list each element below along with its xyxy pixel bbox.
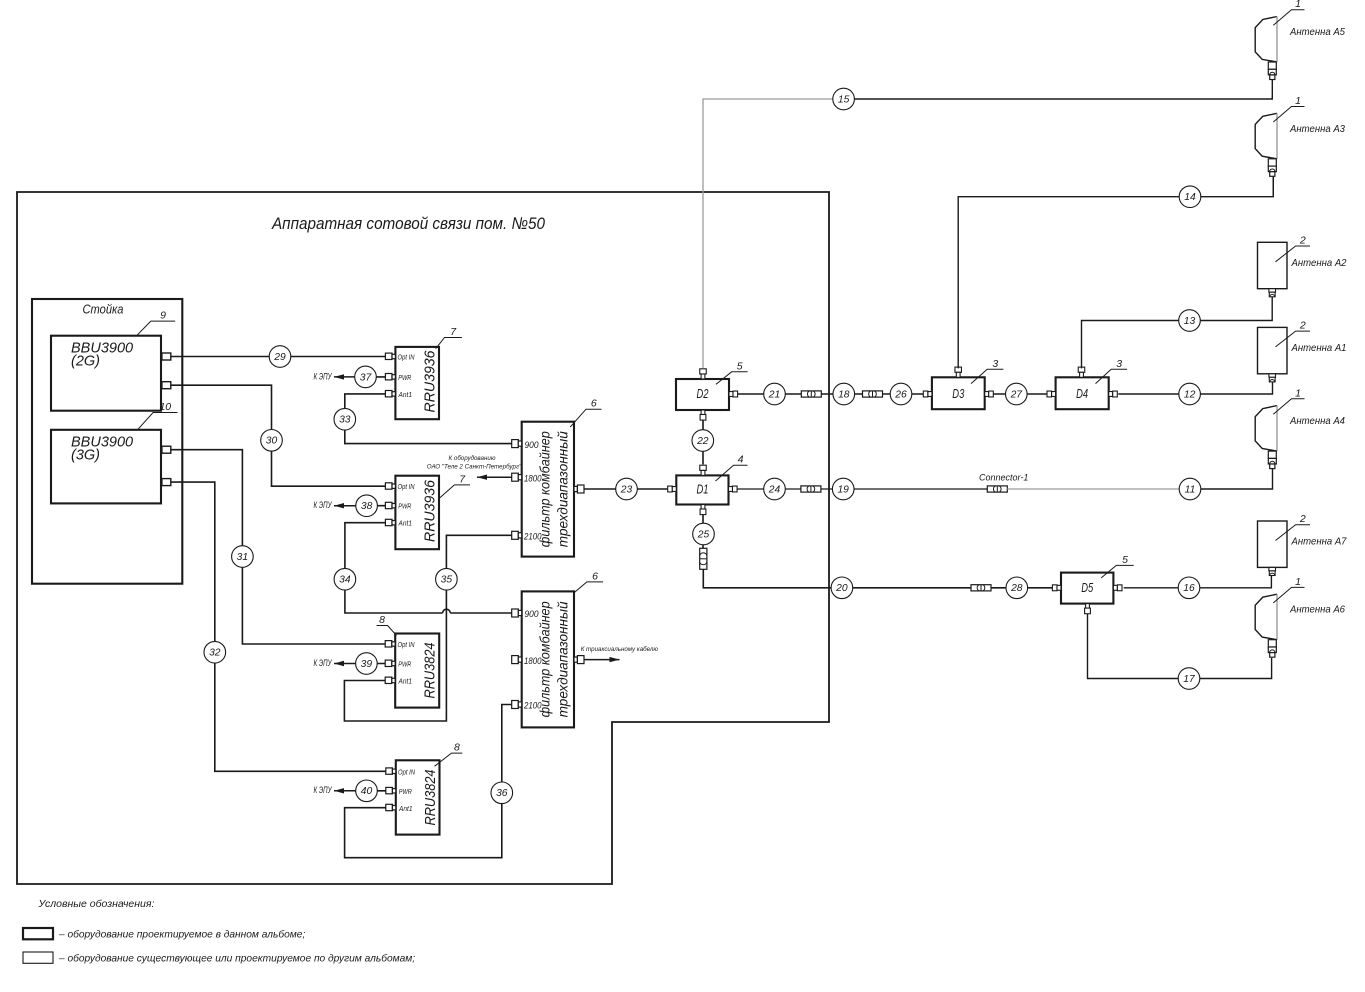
node 19 (832, 478, 854, 500)
svg-text:20: 20 (835, 583, 848, 594)
svg-text:8: 8 (454, 742, 460, 754)
svg-text:2: 2 (1299, 320, 1306, 332)
svg-text:Ant1: Ant1 (398, 519, 412, 528)
wire 20 connector to D5 (via node 28) (703, 569, 971, 588)
arrow to Теле 2 equipment (477, 475, 512, 480)
node 22 (692, 430, 714, 452)
svg-text:Антенна А5: Антенна А5 (1289, 26, 1345, 38)
leader 2 antenna A1 (1276, 320, 1311, 347)
svg-text:26: 26 (894, 389, 907, 400)
svg-text:2100: 2100 (523, 701, 541, 711)
wire D2 to connector (via node 21) (738, 393, 802, 395)
D4 right port (1109, 391, 1118, 397)
svg-text:1: 1 (1295, 576, 1301, 588)
combiner unit 6 (lower) фильтр комбайнер box (522, 591, 574, 727)
node 34 (334, 568, 356, 590)
D1 left port (668, 486, 677, 492)
node 12 (1179, 383, 1201, 405)
svg-text:Антенна А7: Антенна А7 (1291, 536, 1348, 548)
D2 top port (700, 369, 707, 379)
wire connector to connector (via node 18) (821, 393, 862, 395)
node 18 (833, 383, 855, 405)
svg-text:D4: D4 (1076, 387, 1088, 401)
wire 11 to antenna A4 (1201, 469, 1273, 489)
D3 left port (923, 391, 932, 397)
svg-text:9: 9 (160, 310, 166, 322)
svg-text:2100: 2100 (523, 532, 541, 542)
RRU3936-1 PWR port (385, 374, 395, 380)
svg-text:3: 3 (1116, 358, 1122, 370)
node 29 (269, 346, 291, 368)
svg-text:трехдиапазонный: трехдиапазонный (555, 431, 571, 547)
BBU 3G port 2 (162, 479, 171, 486)
RRU3936-2 Opt IN port (385, 483, 395, 489)
node 25 (693, 523, 715, 545)
inline connector on D1 bottom feed (700, 548, 707, 569)
svg-text:23: 23 (620, 484, 633, 495)
svg-text:6: 6 (592, 570, 598, 582)
wire 27 D3 to D4 (993, 393, 1047, 395)
wire PWR to К ЭПУ node 39 (355, 663, 385, 665)
BBU 3G port 1 (162, 446, 171, 453)
arrow К ЭПУ 37 (334, 374, 355, 379)
svg-text:– оборудование существующее ил: – оборудование существующее или проектир… (58, 953, 415, 965)
D4 top port (1078, 367, 1085, 377)
wire 35 Ant1 to combiner-1 2100 (344, 535, 511, 721)
D3 right port (985, 391, 994, 397)
svg-text:(3G): (3G) (71, 448, 100, 464)
svg-text:21: 21 (768, 389, 780, 400)
D5 left port (1052, 585, 1061, 591)
svg-text:22: 22 (696, 436, 709, 447)
wire 24 D1 right to Connector-1 (737, 488, 987, 490)
node 39 (356, 653, 378, 675)
arrow К триаксиальному кабелю (584, 657, 620, 662)
svg-text:11: 11 (1185, 484, 1196, 495)
svg-text:RRU3824: RRU3824 (423, 770, 439, 826)
leader 5 D2 (716, 360, 748, 384)
Connector-1 inline connector (987, 486, 1007, 492)
rack Стойка (32, 299, 182, 584)
svg-text:18: 18 (838, 389, 850, 400)
svg-text:Ant1: Ant1 (398, 804, 412, 813)
leader 9 BBU3900 (2G) (137, 310, 176, 336)
legend symbol existing equipment (23, 952, 53, 963)
svg-text:36: 36 (496, 788, 508, 799)
leader 3 D3 (971, 358, 1003, 384)
node 28 (1006, 577, 1028, 599)
node 36 (491, 782, 513, 804)
leader 10 BBU3900 (3G) (138, 401, 178, 430)
svg-text:Ant1: Ant1 (398, 390, 412, 399)
RRU3824-2 Ant1 port (386, 804, 396, 810)
node 31 (232, 546, 254, 568)
node 15 (833, 88, 855, 110)
svg-text:1800: 1800 (524, 656, 542, 666)
combiner unit 6 (upper) фильтр комбайнер box (522, 422, 574, 557)
RRU3936 unit 7 (lower) box (395, 476, 439, 550)
wire connector to D5 left port (991, 587, 1052, 589)
combiner-1 2100 port (512, 531, 522, 539)
RRU3936-1 Opt IN port (385, 353, 395, 359)
svg-text:– оборудование проектируемое в: – оборудование проектируемое в данном ал… (58, 929, 305, 941)
wire antenna A5 stem (1271, 80, 1273, 99)
leader 6 combiner-2 (575, 570, 604, 592)
svg-text:ОАО "Теле 2 Санкт-Петербург": ОАО "Теле 2 Санкт-Петербург" (427, 464, 522, 471)
wire 17 D5 bottom to antenna A6 (1088, 614, 1272, 679)
svg-text:Антенна А1: Антенна А1 (1291, 342, 1347, 354)
wire D2 top to node 15 (gray, existing) (703, 99, 833, 368)
wire node 15 to antenna A5 (854, 97, 1272, 99)
svg-text:Opt IN: Opt IN (398, 768, 416, 777)
combiner-1 900 port (512, 440, 522, 448)
node 40 (356, 780, 378, 802)
svg-text:19: 19 (837, 484, 849, 495)
svg-text:RRU3936: RRU3936 (423, 350, 439, 413)
combiner-2 1800 port (512, 656, 522, 664)
node 13 (1179, 310, 1201, 332)
svg-text:5: 5 (1122, 554, 1128, 566)
svg-text:2: 2 (1299, 235, 1306, 247)
wire 14 D3 top to antenna A3 (958, 177, 1273, 368)
wire D1 bottom to inline connector (via node 25) (702, 515, 704, 549)
svg-text:1: 1 (1295, 387, 1301, 399)
svg-text:Антенна А6: Антенна А6 (1289, 604, 1345, 616)
RRU3824-1 Opt IN port (385, 641, 395, 647)
svg-text:25: 25 (697, 529, 710, 540)
svg-text:К ЭПУ: К ЭПУ (314, 500, 333, 510)
svg-text:D3: D3 (952, 387, 964, 401)
antenna A7 symbol (1258, 521, 1288, 576)
svg-text:37: 37 (360, 372, 373, 383)
arrow К ЭПУ 39 (334, 661, 355, 666)
svg-text:10: 10 (159, 401, 171, 413)
svg-text:3: 3 (992, 358, 998, 370)
svg-text:(2G): (2G) (71, 354, 100, 370)
leader 6 combiner-1 (570, 398, 601, 427)
arrow К ЭПУ 40 (334, 788, 355, 793)
wire PWR to К ЭПУ node 37 (355, 376, 385, 378)
node 26 (890, 383, 912, 405)
svg-text:D2: D2 (697, 387, 709, 401)
svg-text:14: 14 (1184, 192, 1196, 203)
room outline Аппаратная сотовой связи (17, 192, 829, 884)
svg-text:33: 33 (339, 415, 351, 426)
BBU3900 (2G) box (51, 336, 161, 411)
wire 30 BBU2G to RRU3936-2 Opt IN (171, 385, 386, 486)
svg-text:1: 1 (1295, 0, 1301, 10)
svg-text:Антенна А4: Антенна А4 (1289, 415, 1345, 427)
svg-text:34: 34 (339, 575, 351, 586)
svg-text:Opt IN: Opt IN (398, 640, 416, 649)
node 16 (1178, 577, 1200, 599)
leader 7 RRU3936-1 (436, 326, 462, 349)
node 32 (204, 641, 226, 663)
node 11 (1179, 478, 1201, 500)
svg-text:2: 2 (1299, 513, 1306, 525)
svg-text:Opt IN: Opt IN (398, 482, 416, 491)
inline connector D2-D3 b (863, 391, 883, 397)
svg-text:PWR: PWR (398, 660, 411, 669)
svg-text:1: 1 (1295, 95, 1301, 107)
wire 22 D2 to D1 (702, 420, 704, 465)
D5 bottom port (1085, 604, 1091, 614)
svg-text:35: 35 (441, 575, 453, 586)
svg-text:PWR: PWR (398, 373, 411, 382)
antenna A6 symbol (1255, 594, 1277, 657)
svg-text:К триаксиальному кабелю: К триаксиальному кабелю (581, 646, 659, 653)
svg-text:фильтр комбайнер: фильтр комбайнер (537, 431, 553, 547)
wire 32 BBU3G to RRU3824-2 Opt IN (171, 482, 386, 771)
svg-text:4: 4 (738, 454, 744, 466)
leader 2 antenna A7 (1276, 513, 1311, 540)
BBU 2G port 2 (162, 382, 171, 389)
arrow К ЭПУ 38 (334, 503, 355, 508)
leader 3 D4 (1096, 358, 1128, 384)
inline connector on wire 20 (971, 585, 991, 591)
node 33 (334, 408, 356, 430)
wire 36 Ant1 to combiner-2 2100 (345, 705, 512, 858)
svg-text:трехдиапазонный: трехдиапазонный (555, 601, 571, 717)
node 14 (1179, 186, 1201, 208)
wire 23 combiner-1 to D1 (584, 488, 668, 490)
svg-text:Connector-1: Connector-1 (979, 473, 1028, 483)
svg-text:Стойка: Стойка (83, 303, 124, 317)
svg-text:30: 30 (266, 436, 278, 447)
svg-text:17: 17 (1183, 674, 1196, 685)
svg-text:16: 16 (1183, 583, 1195, 594)
svg-text:13: 13 (1184, 316, 1196, 327)
RRU3936-1 Ant1 port (385, 391, 395, 397)
node 21 (764, 383, 786, 405)
node 35 (436, 568, 458, 590)
leader 2 antenna A2 (1276, 235, 1311, 262)
RRU3824-2 PWR port (386, 787, 396, 793)
svg-text:Антенна А2: Антенна А2 (1291, 257, 1347, 269)
leader 4 D1 (716, 454, 748, 481)
combiner-2 output port (574, 656, 584, 664)
svg-text:PWR: PWR (399, 787, 412, 796)
svg-text:24: 24 (768, 484, 781, 495)
RRU3824-2 Opt IN port (386, 768, 396, 774)
svg-text:RRU3824: RRU3824 (423, 643, 439, 699)
svg-text:12: 12 (1184, 389, 1196, 400)
antenna A5 symbol (1255, 17, 1277, 80)
combiner-2 2100 port (512, 701, 522, 709)
svg-text:К ЭПУ: К ЭПУ (314, 785, 333, 795)
svg-text:К ЭПУ: К ЭПУ (314, 658, 333, 668)
node 27 (1006, 383, 1028, 405)
node 30 (261, 430, 283, 452)
D1 top port (700, 465, 707, 475)
inline connector D1 row (801, 486, 821, 492)
wire 29 BBU2G to RRU3936-1 Opt IN (171, 356, 386, 358)
divider D1 box (676, 475, 728, 504)
D2 right port (729, 391, 738, 397)
BBU3900 (3G) box (51, 430, 161, 504)
D1 right port (729, 486, 738, 492)
svg-text:Opt IN: Opt IN (398, 352, 416, 361)
svg-text:Антенна А3: Антенна А3 (1289, 123, 1345, 135)
wire 12 D4 to antenna A1 (1118, 381, 1272, 394)
D4 left port (1047, 391, 1056, 397)
node 23 (616, 478, 638, 500)
D1 bottom port (700, 505, 706, 515)
svg-text:6: 6 (591, 398, 597, 410)
svg-text:1800: 1800 (524, 473, 542, 483)
combiner-1 1800 port (512, 473, 522, 481)
RRU3936-2 PWR port (385, 502, 395, 508)
wire PWR to К ЭПУ node 40 (355, 790, 386, 792)
wire Connector-1 to node 11 (gray, existing) (1007, 488, 1179, 490)
leader 8 RRU3824-1 (377, 614, 397, 636)
svg-text:Аппаратная сотовой связи пом.: Аппаратная сотовой связи пом. №50 (271, 214, 545, 233)
svg-text:К ЭПУ: К ЭПУ (314, 371, 333, 381)
svg-text:27: 27 (1010, 389, 1024, 400)
node 37 (355, 366, 377, 388)
divider D2 box (676, 379, 729, 410)
node 24 (764, 478, 786, 500)
svg-text:Ant1: Ant1 (398, 677, 412, 686)
wire 31 BBU3G to RRU3824-1 Opt IN (171, 450, 385, 644)
svg-text:5: 5 (737, 360, 743, 372)
RRU3824-1 Ant1 port (385, 677, 395, 683)
svg-text:900: 900 (525, 440, 539, 450)
divider D4 box (1056, 377, 1109, 409)
antenna A2 symbol (1258, 242, 1288, 297)
svg-text:PWR: PWR (398, 502, 411, 511)
RRU3824-1 PWR port (385, 660, 395, 666)
leader 1 antenna A4 (1273, 387, 1304, 414)
svg-text:38: 38 (361, 501, 373, 512)
svg-text:D1: D1 (697, 482, 709, 496)
RRU3936-2 Ant1 port (385, 519, 395, 525)
combiner-1 output port (574, 485, 584, 493)
leader 8 RRU3824-2 (435, 742, 463, 767)
svg-text:29: 29 (273, 352, 286, 363)
D5 right port (1113, 585, 1122, 591)
combiner-2 900 port (512, 609, 522, 617)
divider D3 box (932, 377, 985, 409)
D3 top port (955, 367, 962, 377)
leader 5 D5 (1101, 554, 1134, 578)
svg-text:31: 31 (237, 552, 248, 563)
RRU3824 unit 8 (lower) box (396, 760, 440, 834)
RRU3824 unit 8 (upper) box (395, 634, 439, 708)
svg-text:D5: D5 (1081, 581, 1093, 595)
RRU3936 unit 7 (upper) box (395, 347, 439, 419)
antenna A1 symbol (1258, 327, 1288, 382)
legend symbol new equipment (23, 928, 53, 939)
wire antenna A3 stem (1272, 176, 1274, 196)
leader 1 antenna A6 (1273, 576, 1304, 603)
BBU 2G port 1 (162, 353, 171, 360)
leader 1 antenna A5 (1273, 0, 1304, 25)
node 17 (1178, 668, 1200, 690)
antenna A4 symbol (1255, 406, 1277, 469)
svg-text:Условные обозначения:: Условные обозначения: (38, 898, 155, 910)
divider D5 box (1061, 573, 1113, 604)
svg-text:RRU3936: RRU3936 (423, 479, 439, 542)
wire 13 D4 top to antenna A2 (1082, 297, 1273, 368)
inline connector D2-D3 a (801, 391, 821, 397)
svg-text:32: 32 (209, 648, 221, 659)
node 20 (831, 577, 853, 599)
D2 bottom port (700, 410, 706, 420)
leader 7 RRU3936-2 (438, 473, 470, 499)
svg-text:К оборудованию: К оборудованию (449, 455, 496, 462)
wire 34 Ant1 to combiner-2 900 (with hop) (345, 523, 443, 613)
svg-text:8: 8 (379, 614, 385, 626)
wire connector to D3 (via node 26) (883, 393, 924, 395)
node 38 (356, 495, 378, 517)
wire PWR to К ЭПУ node 38 (355, 505, 385, 507)
wire 16 D5 right to antenna A7 (1124, 576, 1272, 588)
svg-text:28: 28 (1010, 583, 1023, 594)
svg-text:15: 15 (838, 94, 850, 105)
leader 1 antenna A3 (1273, 95, 1304, 122)
svg-text:39: 39 (361, 659, 373, 670)
svg-text:40: 40 (361, 786, 373, 797)
wire 33 Ant1 to combiner-1 900 (345, 394, 512, 444)
antenna A3 symbol (1255, 113, 1277, 176)
svg-text:900: 900 (525, 609, 539, 619)
